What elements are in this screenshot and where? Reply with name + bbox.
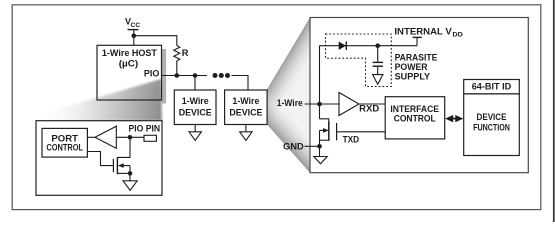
svg-text:CC: CC (131, 22, 141, 29)
svg-text:CONTROL: CONTROL (46, 143, 83, 153)
svg-text:DEVICE: DEVICE (477, 112, 507, 122)
svg-text:DD: DD (452, 32, 463, 39)
svg-text:DEVICE: DEVICE (229, 107, 262, 117)
svg-text:GND: GND (283, 142, 304, 152)
svg-text:TXD: TXD (343, 134, 360, 144)
svg-text:PIO: PIO (144, 69, 159, 79)
svg-text:CONTROL: CONTROL (394, 113, 436, 123)
svg-text:FUNCTION: FUNCTION (473, 122, 510, 132)
svg-text:1-Wire HOST: 1-Wire HOST (102, 48, 157, 58)
svg-text:64-BIT ID: 64-BIT ID (472, 82, 512, 92)
svg-text:1-Wire: 1-Wire (232, 96, 259, 106)
svg-text:1-Wire: 1-Wire (277, 98, 303, 108)
svg-text:DEVICE: DEVICE (179, 107, 212, 117)
svg-text:SUPPLY: SUPPLY (395, 72, 431, 82)
svg-text:R: R (182, 48, 189, 58)
svg-text:1-Wire: 1-Wire (182, 96, 209, 106)
svg-text:INTERNAL V: INTERNAL V (394, 26, 452, 37)
svg-text:(µC): (µC) (119, 58, 139, 68)
svg-text:PIO PIN: PIO PIN (129, 123, 161, 133)
svg-text:RXD: RXD (359, 104, 379, 114)
